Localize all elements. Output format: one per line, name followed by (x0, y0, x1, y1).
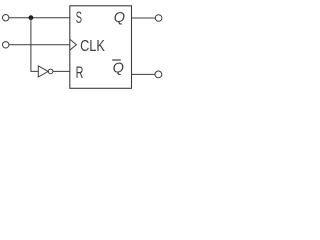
node A junction dot (29, 15, 34, 20)
svg-text:S: S (76, 9, 82, 27)
svg-text:Q: Q (113, 61, 124, 77)
Q-bar overline (112, 59, 121, 61)
wire inverter to R pin (53, 70, 70, 72)
svg-text:R: R (76, 64, 84, 82)
svg-text:CLK: CLK (80, 38, 105, 55)
wire Q-bar pin to output terminal (132, 73, 156, 75)
wire CLK input to CLK pin (9, 44, 70, 46)
input terminal CLK (2, 42, 8, 48)
wire Q pin to output terminal (132, 17, 156, 19)
inverter U2 bubble (48, 69, 53, 74)
svg-text:Q: Q (114, 10, 125, 26)
wire S input to node A (9, 17, 31, 19)
flip-flop U1 body (70, 6, 132, 89)
wire node A down to inverter (31, 18, 38, 72)
input terminal S (2, 15, 8, 21)
output terminal Q (155, 15, 162, 22)
output terminal Q-bar (155, 71, 162, 78)
CLK edge-trigger symbol (70, 39, 77, 50)
wire node A to S pin (31, 17, 70, 19)
inverter U2 triangle (38, 66, 48, 77)
